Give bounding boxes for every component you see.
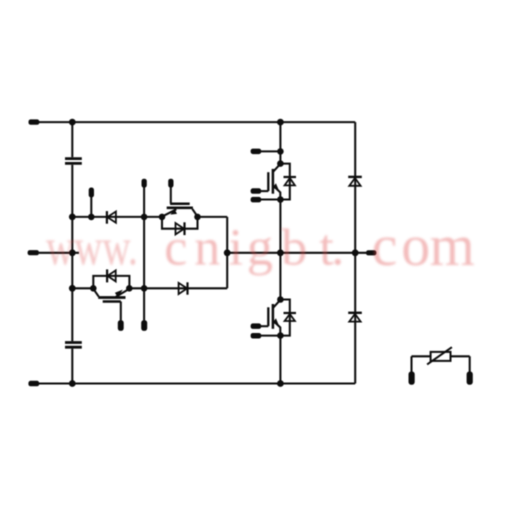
transistor T1 IGBT top [268,164,280,200]
node mid rail / x227 [224,249,231,256]
transistor T2 IGBT bottom [268,300,280,336]
wire T3 loop [162,217,198,229]
watermark www.cnigbt.com [46,213,475,278]
wire left vertical [71,122,73,383]
node mid rail / igbt column [277,249,284,256]
terminal P2 mid-left [28,250,39,255]
wire G1 lead [261,190,269,192]
wire top rail [39,121,355,123]
wire T1 diode loop [280,164,289,200]
node T1 collector [277,160,284,167]
node lower bus / x144 [141,285,148,292]
wire lower bus [72,287,227,289]
wire mid-right rail [227,252,366,254]
terminal P3 bottom-left [28,381,39,387]
svg-text:com: com [372,213,475,278]
pin G3 [168,179,173,188]
node bottom rail / left vertical [69,380,76,387]
diode D1 [107,211,116,224]
node T4 collector [126,285,133,292]
wire T2 diode loop [280,300,289,336]
wire bottom rail [39,382,355,384]
node top rail / igbt column [277,119,284,126]
capacitor C2 [65,343,82,348]
terminal E1-aux [251,197,262,203]
thermistor RT1 [412,347,470,371]
terminal RT1 right [467,371,473,384]
node T3 collector [194,214,201,221]
pin E4 bottom [141,320,147,331]
wire right column [354,122,356,383]
diode D3 [107,269,116,282]
terminal E2-aux [251,333,262,339]
node T4 emitter [90,285,97,292]
node bottom rail / igbt column [277,380,284,387]
wire x144 vertical [143,187,145,320]
node upper bus / x144 [141,214,148,221]
node T1 aux collector [277,148,284,155]
node mid rail / left vertical [69,249,76,256]
diode D7 right top [348,177,362,186]
node upper bus / pin G4 [88,214,95,221]
wire T4 loop [93,276,129,288]
node T2 collector [277,296,284,303]
terminal G2 [251,323,262,329]
diode D2 [176,222,185,235]
wire upper bus [72,216,227,218]
node lower bus / left vertical [69,285,76,292]
diode D8 right bottom [348,313,362,322]
diode D5 freewheel top [284,177,297,185]
wire pin G4 lead [90,197,92,217]
transistor T3 IGBT middle [162,187,198,217]
transistor T4 IGBT lower-left [93,289,129,321]
node top rail / left vertical [69,119,76,126]
wire x227 vertical [226,217,228,288]
node T3 emitter [159,214,166,221]
svg-text:www.: www. [46,218,138,276]
pin G-T4 [118,320,124,331]
node T2 emitter [277,332,284,339]
capacitor C1 [65,159,82,164]
node mid rail / right column [352,249,359,256]
terminal P1 top-left [29,119,40,124]
wire E1-aux lead [261,198,281,200]
wire C1-aux lead [261,150,281,152]
wire mid-left lead [39,252,79,254]
wire G2 lead [261,325,269,327]
wire E2-aux lead [261,335,281,337]
node T1 emitter [277,196,284,203]
diode D6 freewheel bottom [284,313,297,321]
diode D4 [179,282,188,294]
terminal P4 mid-right [366,250,376,255]
terminal RT1 left [409,371,415,384]
node upper bus / left vertical [69,214,76,221]
pin E3 top [142,179,147,188]
wire IGBT column vertical [279,122,281,383]
pin G4 [89,188,94,198]
terminal C1-aux [251,149,262,155]
terminal G1 [251,188,262,194]
